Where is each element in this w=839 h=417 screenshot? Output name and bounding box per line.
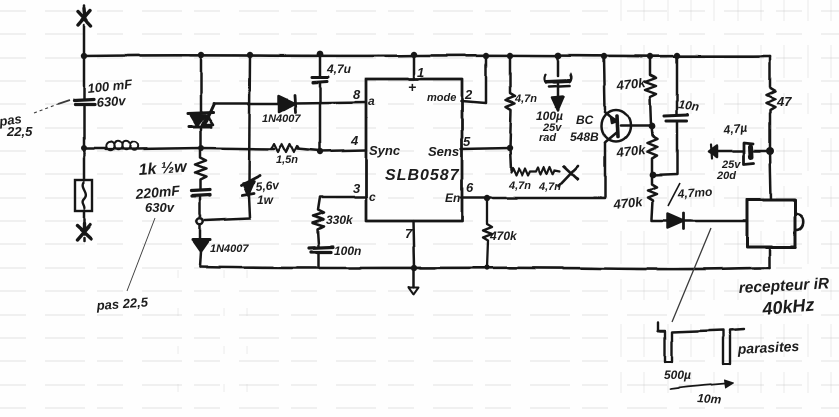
svg-text:5: 5	[463, 134, 471, 149]
svg-text:630v: 630v	[145, 200, 175, 215]
svg-text:4: 4	[350, 133, 359, 148]
svg-text:4,7n: 4,7n	[508, 180, 531, 192]
svg-text:630v: 630v	[96, 93, 127, 110]
svg-text:Sens: Sens	[428, 144, 459, 159]
svg-text:Sync: Sync	[369, 143, 401, 158]
svg-text:En: En	[445, 191, 460, 205]
svg-text:a: a	[368, 94, 375, 108]
svg-text:40kHz: 40kHz	[761, 295, 816, 320]
svg-text:10n: 10n	[678, 97, 700, 114]
svg-text:parasites: parasites	[736, 338, 799, 357]
svg-text:pas 22,5: pas 22,5	[95, 294, 149, 313]
svg-text:1: 1	[417, 65, 424, 80]
svg-text:330k: 330k	[326, 213, 354, 227]
svg-text:100 mF: 100 mF	[87, 76, 134, 96]
svg-text:1N4007: 1N4007	[210, 243, 249, 255]
svg-text:470k: 470k	[612, 194, 644, 212]
svg-text:+: +	[408, 79, 416, 95]
svg-text:8: 8	[353, 87, 361, 102]
svg-text:20d: 20d	[716, 170, 736, 182]
svg-text:4,7n: 4,7n	[514, 93, 537, 105]
svg-text:470k: 470k	[615, 75, 647, 93]
svg-text:2: 2	[464, 87, 473, 102]
svg-text:500µ: 500µ	[664, 368, 691, 382]
svg-text:1N4007: 1N4007	[262, 113, 301, 125]
svg-text:1w: 1w	[257, 193, 274, 207]
svg-text:6: 6	[466, 180, 474, 195]
svg-text:47: 47	[776, 94, 792, 109]
svg-text:recepteur iR: recepteur iR	[738, 275, 830, 297]
svg-text:10m: 10m	[697, 391, 722, 407]
svg-text:1,5n: 1,5n	[276, 154, 298, 166]
svg-text:470k: 470k	[489, 229, 518, 243]
svg-text:100n: 100n	[334, 244, 361, 258]
svg-text:BC: BC	[576, 113, 594, 127]
svg-text:5,6v: 5,6v	[255, 178, 281, 194]
svg-text:1k ½w: 1k ½w	[138, 159, 189, 179]
svg-text:4,7n: 4,7n	[538, 181, 561, 193]
svg-text:548B: 548B	[570, 130, 599, 144]
svg-text:4,7u: 4,7u	[326, 62, 352, 76]
svg-text:22,5: 22,5	[6, 124, 33, 139]
svg-text:4,7µ: 4,7µ	[722, 121, 748, 138]
svg-text:7: 7	[405, 226, 413, 241]
svg-text:470k: 470k	[615, 142, 647, 160]
svg-text:rad: rad	[539, 132, 556, 144]
svg-text:c: c	[369, 190, 376, 204]
svg-text:mode: mode	[427, 92, 456, 104]
svg-text:4,7mo: 4,7mo	[676, 185, 713, 201]
svg-text:SLB0587: SLB0587	[385, 167, 460, 184]
svg-text:100µ: 100µ	[536, 109, 563, 123]
svg-text:3: 3	[353, 181, 361, 196]
